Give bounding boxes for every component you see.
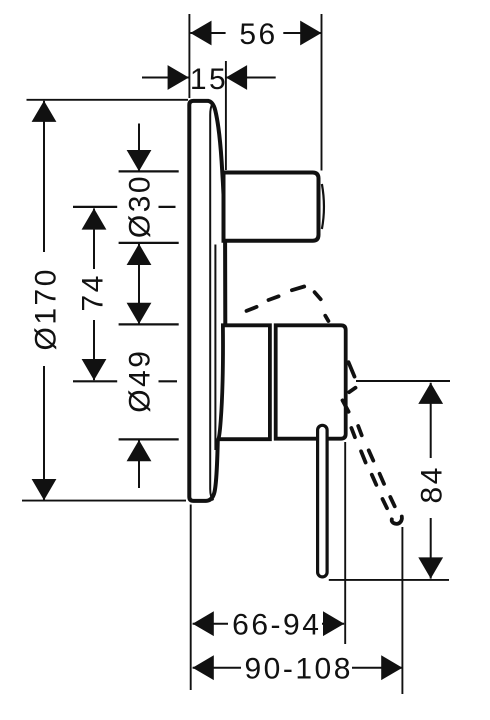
dimension 66-94 line: [193, 623, 228, 625]
dimension 74 line: [93, 208, 95, 269]
handle hub body: [276, 325, 346, 438]
shared leader between Ø30 and Ø49: [138, 244, 140, 324]
extension line horizontal top Ø170: [27, 99, 189, 101]
extension line 84 bottom (lever tip): [329, 579, 449, 581]
tick 74 bottom (handle axis): [73, 380, 117, 382]
arrow 56 right: [300, 21, 321, 46]
extension line right of 15: [225, 61, 227, 170]
arrow 74 top: [82, 208, 107, 229]
dimension 56 line: [190, 32, 225, 34]
tick Ø49 bottom: [119, 438, 179, 440]
arrow Ø170 top: [32, 101, 57, 122]
faceplate inner silhouette line (thin): [214, 245, 216, 451]
dimension 90-108 line: [193, 667, 241, 669]
dashed lever pulled-out: upper emerge dashes: [349, 362, 355, 376]
arrow 90-108 right: [381, 655, 402, 680]
tick Ø30 top: [119, 170, 179, 172]
pipe end cap bulge: [322, 184, 324, 229]
arrow 66-94 right: [323, 611, 344, 636]
extension line right for 66-94 (hub end): [344, 442, 346, 644]
dashed lever pulled-out: right edge dashes: [358, 426, 362, 435]
svg-text:84: 84: [415, 465, 448, 503]
arrow Ø170 bottom: [32, 479, 57, 500]
arrow Ø30 bottom (outside, pointing up): [127, 244, 152, 265]
extension line right for 90-108 (lever tip pulled): [401, 527, 403, 694]
arrow Ø49 top (outside, pointing down): [127, 303, 152, 324]
extension line horizontal bottom Ø170: [22, 500, 186, 502]
arrow 66-94 left: [193, 611, 214, 636]
arrow 84 top: [418, 383, 443, 404]
dimension Ø49 leader bottom: [138, 440, 140, 488]
extension line left for 66-94 and 90-108: [190, 505, 192, 691]
svg-text:Ø49: Ø49: [124, 348, 157, 412]
extension line right of 56 (pipe end): [321, 14, 323, 171]
tick Ø30 bottom: [119, 242, 179, 244]
arrow Ø49 bottom (outside, pointing up): [127, 440, 152, 461]
lever handle rod (rest position): [318, 425, 328, 577]
faceplate front face edge (thin): [210, 103, 213, 500]
pipe stub (spout connection): [224, 173, 319, 241]
tick Ø49 top: [119, 323, 179, 325]
arrow Ø30 top (outside, pointing down): [127, 150, 152, 171]
faceplate top-right silhouette: [208, 101, 225, 326]
arrow 84 bottom: [418, 557, 443, 578]
dimension Ø170 line: [43, 101, 45, 252]
svg-text:15: 15: [190, 63, 228, 96]
extension line top of faceplate front (left, for 15/56): [188, 14, 190, 98]
svg-text:Ø170: Ø170: [30, 267, 63, 350]
arrow 90-108 left: [193, 655, 214, 680]
svg-text:74: 74: [77, 273, 110, 311]
svg-text:56: 56: [239, 18, 277, 51]
faceplate outline (front edge, top and bottom): [189, 101, 217, 501]
dimension Ø30 leader top: [138, 124, 140, 172]
svg-text:66-94: 66-94: [232, 609, 321, 642]
svg-text:90-108: 90-108: [244, 653, 352, 686]
extension line 84 top (pivot axis): [356, 380, 450, 382]
tick 74 top (pipe axis): [73, 206, 117, 208]
arrow 15 right (outside, pointing left): [226, 65, 247, 90]
dimension 84 line: [430, 383, 432, 458]
dashed lever pulled-out: left edge dashes: [351, 428, 355, 437]
arrow 74 bottom: [82, 359, 107, 380]
handle hub sleeve (tapered): [218, 325, 270, 439]
dashed lever pulled-out: end cap hook: [392, 517, 402, 524]
dashed lever swung-up position: [247, 307, 257, 311]
arrow 15 left (outside, pointing right): [168, 65, 189, 90]
arrow 56 left: [190, 21, 211, 46]
dimension 15 line: [142, 77, 189, 79]
svg-text:Ø30: Ø30: [124, 174, 157, 238]
